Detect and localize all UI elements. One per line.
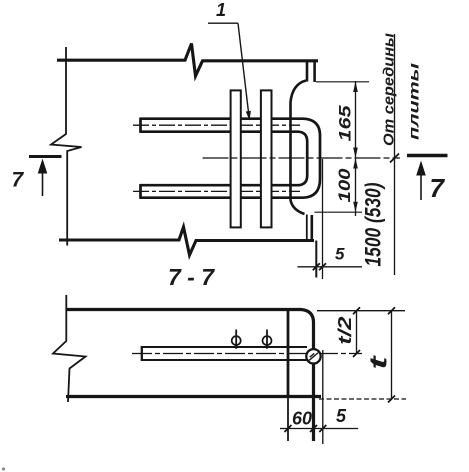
svg-text:100: 100 [335, 168, 354, 203]
svg-text:t/2: t/2 [335, 317, 355, 345]
svg-text:5: 5 [335, 245, 345, 264]
svg-text:1500 (530): 1500 (530) [361, 183, 386, 267]
svg-text:1: 1 [216, 0, 226, 20]
svg-text:7 - 7: 7 - 7 [168, 264, 215, 290]
svg-text:165: 165 [336, 105, 355, 142]
svg-text:7: 7 [430, 173, 446, 203]
svg-text:t: t [366, 355, 393, 370]
svg-text:От середины: От середины [381, 33, 398, 146]
svg-text:5: 5 [336, 406, 347, 426]
svg-text:60: 60 [292, 409, 312, 429]
svg-text:7: 7 [12, 169, 25, 192]
svg-text:плиты: плиты [406, 63, 422, 140]
